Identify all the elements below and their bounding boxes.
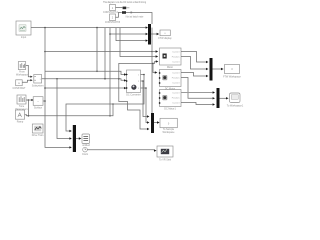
svg-text:DC Converter: DC Converter — [126, 94, 141, 97]
svg-text:Drive Train: Drive Train — [32, 134, 44, 137]
svg-text:Current: Current — [172, 91, 180, 94]
svg-text:Position: Position — [172, 76, 181, 79]
wire L1 signal builder to mux M1 — [31, 27, 147, 29]
svg-text:Input: Input — [21, 36, 27, 39]
block From Workspace LA — [16, 62, 29, 77]
mux MBL — [73, 125, 76, 152]
motor subsystem b8 — [159, 70, 181, 91]
motor subsystem b9 — [159, 90, 181, 111]
motor subsystem b7 — [160, 48, 182, 69]
wire branch to M1 input2 and trunk V110 — [109, 28, 111, 116]
wire H51 to subsystem inputs — [45, 51, 152, 53]
wire H71 to controller in1 — [45, 71, 124, 74]
svg-text:This diagram runs the DC motor: This diagram runs the DC motor at batch … — [103, 1, 147, 4]
svg-text:Current: Current — [172, 60, 180, 63]
mux MC — [151, 113, 154, 133]
wire b9 out1 to mux MR2 — [181, 92, 213, 94]
rate transition RT2 — [122, 11, 126, 14]
svg-text:untitled: untitled — [82, 144, 90, 147]
block To Workspace W1 — [160, 118, 177, 134]
wire V120 to motor1 in2 — [120, 28, 156, 57]
svg-text:CONSTANT: CONSTANT — [13, 87, 27, 90]
wire b8 out1 to mux MR1 — [181, 73, 206, 77]
wire RT2 to vertical drop — [126, 13, 152, 25]
arrow into mux M1 input1 — [146, 26, 148, 28]
mux MR2 — [217, 88, 220, 108]
wire b9 out3 to mux MR2 — [181, 103, 213, 105]
wire b7 out2 to mux MR1 — [181, 57, 206, 70]
svg-text:Current: Current — [172, 81, 180, 84]
svg-text:Not at batch rate: Not at batch rate — [126, 15, 144, 18]
wire x118.8 chain down to mux MC in3 — [119, 79, 147, 129]
wire H116 into mux MC in3 handled above; wire MC out to workspace block — [154, 122, 157, 124]
wire LE out to V45 — [43, 100, 45, 102]
display D1 — [223, 65, 241, 79]
svg-text:To VR Sink: To VR Sink — [159, 159, 172, 162]
wire MR1 out to display D1 — [213, 68, 222, 70]
svg-text:Current: Current — [172, 101, 180, 104]
svg-text:Ramp: Ramp — [17, 121, 24, 124]
block From Workspace LD — [15, 95, 28, 111]
block Signal Builder — [16, 21, 31, 39]
wire b8 out2 down to mux MR2 — [181, 78, 213, 99]
svg-text:FTW Workspace: FTW Workspace — [223, 75, 241, 78]
svg-text:Motor: Motor — [167, 66, 173, 69]
block LE Surface — [33, 97, 43, 110]
block Constant LB — [13, 80, 27, 90]
wire B to RT2 — [116, 13, 122, 18]
scope S2 — [157, 146, 173, 162]
wire controller out2 down to mux MC in1 — [141, 81, 148, 117]
wire LD to LE — [26, 99, 32, 101]
svg-text:FTW display: FTW display — [158, 37, 172, 40]
svg-text:Workspace: Workspace — [16, 73, 29, 76]
svg-text:Current: Current — [172, 71, 180, 74]
svg-text:Workspace: Workspace — [163, 131, 176, 134]
svg-text:Clock: Clock — [82, 153, 89, 156]
wire M1 out to FTW display — [151, 33, 157, 35]
wire LA to subsystem LC in1 — [26, 65, 31, 76]
svg-text:Current: Current — [172, 50, 180, 53]
block Constant B (top) — [105, 14, 121, 24]
wire into motor1 in1 — [152, 51, 156, 53]
wire MR2 out to scope D2 — [220, 97, 227, 99]
svg-text:CONSTANT B: CONSTANT B — [105, 21, 121, 24]
block LF A-block — [15, 110, 24, 124]
clock — [82, 147, 89, 156]
wire MBL out to BL block — [76, 138, 79, 140]
wire V54 to mux MBL in2 — [57, 79, 70, 139]
svg-text:Position: Position — [172, 55, 181, 58]
wire LB to subsystem LC in2 — [22, 80, 30, 82]
wire trunk V97 — [96, 28, 98, 72]
arrow V45 into MBL in3 — [69, 146, 71, 148]
svg-text:To Workspace1: To Workspace1 — [227, 104, 244, 107]
rate transition RT1 — [123, 7, 130, 10]
wire trunk V45 — [45, 28, 70, 148]
wire LF out along H116 — [25, 104, 113, 116]
block Constant A (top) — [103, 5, 118, 15]
mux M1 — [148, 24, 151, 45]
svg-text:DC Motor1: DC Motor1 — [164, 108, 176, 111]
scope D2 — [227, 93, 244, 107]
wire A to RT1 — [116, 7, 123, 9]
junction on L1 — [44, 27, 46, 29]
subsystem LC — [32, 75, 44, 88]
wire H88 to controller in3 — [45, 87, 124, 89]
wire controller out3 down to mux MC in2 — [141, 88, 148, 123]
wire LC out to controller in2 — [42, 79, 125, 81]
wire riser from LD junction down to H116 — [27, 100, 29, 116]
wire LC branch up to motor1 in3 and motor2 in1 — [118, 78, 120, 80]
controller block — [126, 70, 141, 97]
block G drive — [32, 124, 44, 137]
svg-text:Surface: Surface — [34, 106, 43, 109]
mux MR1 — [210, 58, 213, 81]
wire branch to M1 input3 — [116, 28, 146, 41]
wire clock to scope S2 — [87, 149, 154, 152]
svg-text:Position: Position — [172, 96, 181, 99]
block FTW display — [158, 30, 172, 40]
wire drop x152 to mux MC — [151, 28, 153, 113]
wire trunk V105 — [104, 28, 106, 79]
wire b7 out1 to mux MR1 — [181, 52, 206, 63]
wire controller out1 — [66, 75, 144, 132]
svg-text:Subsystem: Subsystem — [32, 84, 44, 87]
block BL file — [82, 134, 91, 147]
